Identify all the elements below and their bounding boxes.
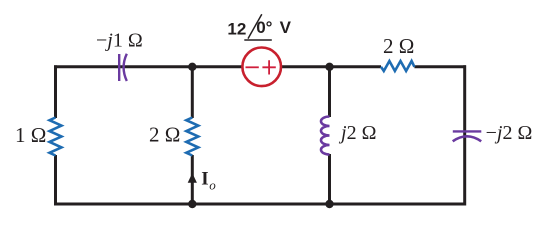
label C1 value: -j1 ohm [96,30,143,52]
svg-text:2 Ω: 2 Ω [383,34,414,58]
wire: middle branch upper segment (node A down to R2) [191,67,194,118]
node D (bottom junction under L1) [325,200,333,208]
wire: left branch lower segment [54,155,57,206]
resistor R2 2ohm (middle branch) [186,118,198,156]
svg-text:2 Ω: 2 Ω [149,123,180,147]
label R1 value: 1 ohm [15,123,46,147]
resistor R3 2ohm (top right) [381,61,414,71]
node B (top junction right of source) [325,63,333,71]
svg-text:−j1 Ω: −j1 Ω [96,30,143,52]
wire: mid-right branch upper segment (node B down to L1) [328,67,331,117]
svg-text:V: V [280,18,292,37]
wire: bottom wire [54,203,466,206]
label V1 value: 12 angle 0 deg V [227,14,291,40]
capacitor C2 -j2 ohm (right branch, straight plate) [453,130,482,132]
node C (bottom junction under R2) [188,200,196,208]
voltage source V1 minus sign [246,66,259,68]
wire: left branch upper segment [54,65,57,118]
svg-text:1 Ω: 1 Ω [15,123,46,147]
label L1 value: j2 ohm [338,122,376,144]
wire: right branch (top-right corner through C2 to bottom-right corner) [463,65,466,205]
capacitor C2 curved plate [453,136,482,141]
voltage source V1 (circle body) [242,48,281,87]
svg-text:I: I [201,168,208,189]
label R2 value: 2 ohm [149,123,180,147]
wire: top wire middle segment (node A under source to resistor R3) [191,65,381,68]
resistor R1 1ohm (left branch) [50,118,62,156]
current arrow Io (on middle branch lower wire, pointing up) [188,173,197,183]
svg-text:0°: 0° [256,18,272,37]
wire: middle branch lower segment (R2 to bottom node C, carries Io arrow) [191,155,194,204]
label C2 value: -j2 ohm [486,122,533,144]
label Io [201,168,216,192]
svg-text:12: 12 [227,19,246,38]
wire: top wire right segment (resistor R3 to top-right corner) [414,65,466,68]
wire: mid-right branch lower segment (L1 to bottom node D) [328,154,331,204]
capacitor C1 curved plate [124,54,127,81]
inductor L1 j2 ohm (mid-right branch coil) [321,117,330,155]
label R3 value: 2 ohm [383,34,414,58]
svg-text:−j2 Ω: −j2 Ω [486,122,533,144]
svg-text:j2 Ω: j2 Ω [338,122,376,144]
capacitor C1 -j1 ohm (top left, straight plate) [118,54,120,81]
svg-text:o: o [209,178,216,193]
node A (top junction between C1 and source) [188,63,196,71]
wire: top wire left segment (top-left corner to node A) [54,65,193,68]
voltage source V1 plus sign [262,60,275,74]
